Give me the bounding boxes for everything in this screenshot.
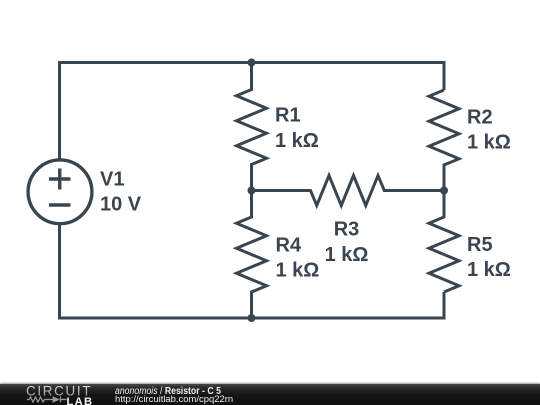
- V1 plus sign: [49, 169, 71, 190]
- svg-text:1 kΩ: 1 kΩ: [467, 259, 511, 281]
- svg-text:LAB: LAB: [67, 396, 94, 405]
- svg-text:R3: R3: [334, 219, 360, 241]
- resistor R1: [237, 63, 267, 191]
- label R5 value: [467, 234, 511, 281]
- label R2 value: [467, 107, 511, 154]
- svg-text:R4: R4: [276, 235, 302, 257]
- resistor R5: [429, 191, 459, 293]
- label R4 value: [276, 235, 320, 282]
- logo resistor+diode symbol: [27, 397, 67, 403]
- voltage source V1 circle: [28, 160, 92, 224]
- svg-text:R2: R2: [467, 107, 493, 129]
- svg-text:V1: V1: [100, 169, 124, 191]
- logo LAB text: [67, 396, 94, 405]
- node: top junction: [248, 59, 256, 67]
- wire: left rail + top rail + R2 top lead: [60, 63, 445, 161]
- resistor R3 (horizontal) + middle wires: [252, 176, 445, 206]
- svg-text:10 V: 10 V: [100, 194, 142, 216]
- svg-text:1 kΩ: 1 kΩ: [325, 244, 369, 266]
- svg-text:1 kΩ: 1 kΩ: [275, 130, 319, 152]
- node: middle-right junction: [440, 187, 448, 195]
- svg-text:1 kΩ: 1 kΩ: [467, 132, 511, 154]
- label V1 value: [100, 169, 142, 216]
- label R3 value: [325, 219, 369, 267]
- wire: V1 bottom lead + bottom rail: [60, 224, 445, 319]
- CircuitLab logo: [0, 384, 110, 405]
- V1 minus sign: [49, 203, 71, 206]
- node: bottom junction: [248, 314, 256, 322]
- footer bar: [0, 384, 540, 405]
- resistor R4: [237, 191, 267, 319]
- footer url text: [115, 395, 233, 404]
- svg-text:R5: R5: [467, 234, 493, 256]
- footer title text: [115, 387, 221, 396]
- svg-text:R1: R1: [275, 105, 301, 127]
- node: middle-left junction: [248, 187, 256, 195]
- label R1 value: [275, 105, 319, 153]
- resistor R2: [429, 90, 459, 191]
- svg-text:1 kΩ: 1 kΩ: [276, 260, 320, 282]
